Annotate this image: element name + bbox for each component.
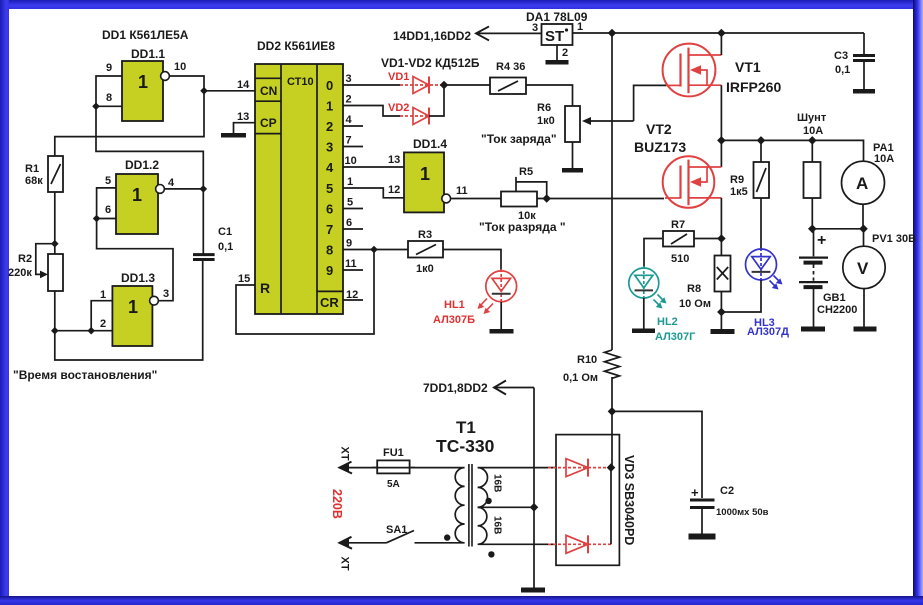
transistor VT1 (663, 44, 722, 97)
svg-text:1: 1 (138, 72, 148, 92)
wire pin6 stub (97, 218, 116, 220)
ground C2 (689, 534, 716, 540)
ground GB1 (801, 327, 825, 332)
svg-text:9: 9 (346, 238, 352, 250)
svg-text:3: 3 (326, 140, 333, 155)
wire DD1.3 pin1 tie (91, 301, 112, 331)
svg-text:А: А (856, 174, 868, 193)
rectifier VD3 box (556, 435, 619, 566)
node VD junction (440, 81, 449, 90)
svg-text:11: 11 (345, 258, 357, 270)
wire DD1.1 output to feedback (55, 76, 204, 156)
diode VD2 (400, 108, 429, 125)
svg-text:GB1: GB1 (823, 292, 846, 304)
connector arrow XT top (340, 467, 377, 469)
node rail-bus junction (608, 29, 617, 38)
svg-text:7: 7 (326, 222, 333, 237)
svg-text:8: 8 (106, 92, 112, 104)
svg-text:4: 4 (346, 114, 353, 126)
LED HL2 (629, 266, 667, 309)
svg-text:14DD1,16DD2: 14DD1,16DD2 (393, 29, 471, 43)
svg-text:СН2200: СН2200 (817, 304, 857, 316)
wire DD1.1 inputs 9,8 tied (96, 76, 203, 254)
svg-text:CP: CP (260, 116, 277, 130)
voltmeter PV1 (843, 246, 885, 288)
capacitor C2 (690, 500, 715, 534)
R6 wiper arrow from VT1 gate (588, 120, 634, 122)
svg-text:2: 2 (326, 119, 333, 134)
transformer secondary winding upper (478, 468, 488, 508)
svg-text:2: 2 (346, 94, 352, 106)
diode VD3 lower (548, 535, 611, 553)
wire VT2 source down (720, 198, 722, 256)
node R5 wiper junction (542, 194, 551, 203)
svg-text:7: 7 (346, 135, 352, 147)
svg-text:VT2: VT2 (646, 121, 672, 137)
svg-text:ХТ: ХТ (339, 557, 351, 571)
wire R9 to HL3 (760, 198, 762, 250)
svg-text:IRFP260: IRFP260 (726, 79, 781, 95)
svg-text:R8: R8 (687, 283, 701, 295)
svg-text:0,1: 0,1 (835, 64, 850, 76)
diode VD3 upper (548, 459, 611, 477)
node DD1.2 output junction (200, 185, 208, 193)
wire out6 stub (343, 208, 363, 210)
svg-text:C1: C1 (218, 226, 232, 238)
battery GB1 (799, 229, 828, 327)
wire R pin15 reset loop (236, 250, 374, 335)
svg-text:1к0: 1к0 (537, 115, 555, 127)
capacitor C3 (853, 56, 875, 90)
wire R7 left to HL2 (644, 239, 662, 269)
wire VT1 drain to rail (720, 33, 722, 55)
wire bus to bridge (611, 377, 613, 468)
wire VT1 source to VT2 drain (720, 85, 722, 167)
wire PV1 bottom (863, 289, 865, 327)
transformer T1 primary winding (455, 468, 464, 543)
wire HL3 bottom return (721, 280, 761, 312)
wire secondary center tap (478, 506, 534, 508)
frame left (0, 0, 9, 605)
svg-text:0: 0 (326, 78, 333, 93)
svg-text:1: 1 (326, 99, 333, 114)
R2 wiper arrowhead (40, 271, 48, 279)
svg-text:5: 5 (347, 197, 353, 209)
svg-text:CN: CN (260, 84, 277, 98)
transformer secondary winding lower (478, 507, 487, 544)
svg-text:16В: 16В (492, 474, 503, 492)
wire DD1.4 output to R5 (451, 198, 501, 200)
svg-text:DD1.4: DD1.4 (413, 137, 447, 151)
svg-text:BUZ173: BUZ173 (634, 139, 686, 155)
resistor R9 (754, 162, 770, 198)
svg-text:12: 12 (388, 184, 400, 196)
node bridge output junction (607, 463, 616, 472)
svg-text:C3: C3 (834, 50, 848, 62)
wire HL1 to ground (500, 302, 502, 329)
svg-text:1: 1 (100, 289, 106, 301)
svg-text:68к: 68к (25, 175, 43, 187)
svg-text:10: 10 (174, 61, 186, 73)
ground HL1 (490, 329, 514, 334)
lamp-resistor R8 X-box (715, 256, 731, 292)
svg-text:ХТ: ХТ (339, 447, 351, 461)
svg-text:6: 6 (105, 204, 111, 216)
frame bottom (0, 596, 923, 605)
LED HL1 (478, 269, 517, 314)
svg-text:CR: CR (320, 295, 339, 310)
svg-text:220В: 220В (330, 489, 344, 519)
svg-text:"Ток заряда": "Ток заряда" (481, 132, 557, 146)
wire out4 pin10 to DD1.4 (343, 166, 404, 168)
svg-text:ST: ST (545, 28, 564, 45)
svg-text:R9: R9 (730, 174, 744, 186)
wire FU1 to primary (410, 467, 459, 469)
wire DA1 pin2 to ground (556, 45, 558, 60)
wire shunt rail (721, 140, 863, 161)
svg-text:8: 8 (326, 243, 333, 258)
svg-text:V: V (857, 259, 869, 278)
winding polarity dot secondary lower (488, 551, 494, 557)
svg-text:R: R (260, 280, 270, 296)
wire R7 right (694, 238, 721, 240)
gate DD1.3 (112, 286, 158, 346)
svg-text:DD1.3: DD1.3 (121, 271, 155, 285)
resistor R3 (408, 241, 443, 258)
ground R8 (711, 329, 735, 334)
svg-text:Т1: Т1 (456, 418, 476, 437)
gate DD1.4 (404, 152, 451, 212)
ground HL2 (632, 329, 655, 334)
svg-text:1: 1 (577, 21, 583, 33)
svg-text:510: 510 (671, 253, 689, 265)
wire R9 top (760, 140, 762, 162)
wire R4 to R6 (526, 85, 573, 106)
wire VT1 gate (634, 85, 666, 121)
svg-text:R4 36: R4 36 (496, 61, 525, 73)
svg-text:0,1: 0,1 (218, 241, 233, 253)
svg-text:"Время востановления": "Время востановления" (13, 368, 157, 382)
frame right (913, 0, 923, 605)
svg-text:АЛ307Б: АЛ307Б (433, 314, 475, 326)
trimmer R6 (565, 106, 580, 142)
wire HL2 to ground (643, 298, 645, 329)
node R9 top junction (757, 136, 766, 145)
svg-text:C2: C2 (720, 485, 734, 497)
svg-text:+: + (817, 232, 826, 249)
ground R6 (562, 168, 583, 173)
wire CN to DD2 (204, 90, 255, 92)
regulator DA1 ST box (542, 24, 573, 45)
switch SA1 (386, 531, 459, 543)
svg-text:0,1 Ом: 0,1 Ом (563, 372, 598, 384)
wire VD2 cathode up to VD1 (429, 85, 444, 116)
wire DA1 pin3 with arrow (476, 32, 542, 34)
svg-text:6: 6 (346, 217, 352, 229)
frame top (0, 0, 923, 9)
node R7 junction (717, 234, 726, 243)
svg-text:14: 14 (237, 79, 250, 91)
node voltmeter junction (859, 225, 868, 234)
node R1/R2 wiper junction (51, 240, 59, 248)
svg-text:1к5: 1к5 (730, 186, 748, 198)
svg-text:АЛ307Г: АЛ307Г (655, 331, 696, 343)
resistor R10 zigzag (605, 350, 620, 378)
capacitor C1 (193, 255, 215, 260)
wire lower rail (812, 228, 863, 230)
svg-text:13: 13 (388, 154, 400, 166)
rheostat R5 (501, 177, 547, 207)
wire C3 drop (863, 33, 865, 54)
node battery junction (808, 225, 817, 234)
svg-text:2: 2 (100, 318, 106, 330)
transistor VT2 (663, 156, 722, 208)
svg-text:VD2: VD2 (388, 102, 409, 114)
svg-text:1к0: 1к0 (416, 263, 434, 275)
svg-text:R6: R6 (537, 102, 551, 114)
wire bridge output join (610, 468, 612, 545)
wire VD junction to R4 (444, 84, 490, 86)
wire center tap vertical (533, 388, 535, 588)
svg-text:HL2: HL2 (657, 316, 678, 328)
node VT junction (717, 136, 726, 145)
svg-text:10: 10 (345, 155, 357, 167)
winding polarity dot primary (444, 534, 450, 540)
svg-text:7DD1,8DD2: 7DD1,8DD2 (423, 381, 488, 395)
svg-text:R10: R10 (577, 354, 597, 366)
svg-text:+: + (691, 485, 699, 500)
node DD1.2 pin6 junction (93, 215, 101, 223)
ground PV1 (854, 327, 877, 332)
wire out5 pin1 to DD1.4 (343, 188, 404, 198)
svg-text:DD1.1: DD1.1 (131, 47, 165, 61)
wire main bus x=612 (611, 33, 613, 350)
svg-text:1: 1 (420, 164, 430, 184)
svg-text:11: 11 (456, 185, 468, 197)
wire PA1 bottom (862, 204, 864, 229)
wire DD1.2 inputs tied (97, 188, 173, 301)
svg-text:9: 9 (326, 263, 333, 278)
svg-text:3: 3 (163, 288, 169, 300)
wire R8 to ground (720, 292, 722, 330)
wire out7 stub (343, 228, 363, 230)
wire CP pin13 to ground (234, 123, 256, 133)
node HL3 return junction (717, 308, 726, 317)
node DD1.3 pin1/2 junction (87, 327, 95, 335)
svg-text:PV1 30В: PV1 30В (872, 233, 916, 245)
svg-text:1000мх 50в: 1000мх 50в (716, 507, 769, 518)
svg-text:DD1 К561ЛЕ5А: DD1 К561ЛЕ5А (102, 28, 189, 42)
svg-text:6: 6 (326, 202, 333, 217)
wire secondary top to bridge (483, 467, 556, 469)
svg-text:VD3 SB3040PD: VD3 SB3040PD (622, 455, 636, 545)
node R2-DD1.3 junction (51, 327, 59, 335)
wire secondary bottom to bridge (483, 543, 556, 545)
svg-text:15: 15 (238, 273, 250, 285)
svg-text:2: 2 (562, 47, 568, 59)
wire shunt top (811, 140, 813, 162)
svg-text:1: 1 (347, 176, 353, 188)
node C2 branch junction (608, 407, 617, 416)
svg-text:R7: R7 (671, 219, 685, 231)
wire shunt bottom (811, 198, 813, 229)
svg-text:АЛ307Д: АЛ307Д (747, 326, 789, 338)
wire CR pin12 stub (343, 299, 363, 301)
svg-text:VT1: VT1 (735, 59, 761, 75)
node reset junction (370, 246, 378, 254)
wire out1 pin2 (343, 106, 400, 117)
winding polarity dot secondary upper (485, 498, 491, 504)
LED HL3 (746, 248, 783, 290)
shunt resistor (804, 162, 821, 198)
svg-text:9: 9 (106, 62, 112, 74)
svg-text:Шунт: Шунт (797, 112, 827, 124)
svg-text:16В: 16В (492, 516, 503, 534)
svg-text:13: 13 (237, 111, 249, 123)
svg-text:ТС-330: ТС-330 (436, 436, 495, 456)
svg-text:5А: 5А (387, 479, 400, 490)
ground CP (221, 133, 246, 138)
wire 7DD1 arrow to center tap line (494, 387, 534, 389)
svg-text:DD2 К561ИЕ8: DD2 К561ИЕ8 (257, 39, 335, 53)
potentiometer R2 (48, 254, 63, 291)
svg-text:5: 5 (326, 181, 333, 196)
resistor R7 (663, 231, 694, 247)
fuse FU1 (372, 460, 415, 473)
svg-text:FU1: FU1 (383, 447, 404, 459)
ground C3 (853, 89, 875, 94)
svg-text:VD1: VD1 (388, 71, 409, 83)
svg-text:5: 5 (105, 175, 111, 187)
svg-text:220к: 220к (8, 267, 32, 279)
svg-text:1: 1 (132, 185, 142, 205)
svg-text:3: 3 (346, 73, 352, 85)
ammeter PA1 (842, 161, 885, 204)
svg-text:10А: 10А (803, 125, 823, 137)
wire R2 bottom to loop (55, 261, 203, 361)
wire out0 pin3 (343, 84, 400, 86)
node shunt top junction (808, 136, 817, 145)
wire R2 wiper loop (36, 244, 55, 275)
node pin8 junction (92, 103, 100, 111)
svg-text:3: 3 (532, 22, 538, 34)
node DD1.1 output/CN junction (200, 87, 208, 95)
svg-text:10А: 10А (874, 153, 894, 165)
node rail-VT1 junction (717, 29, 726, 38)
diode VD1 (400, 77, 444, 94)
gate DD1.2 (116, 174, 164, 234)
wire pin8 stub (96, 105, 122, 107)
svg-text:1: 1 (128, 297, 138, 317)
svg-text:DD1.2: DD1.2 (125, 158, 159, 172)
wire R1 to R2 (54, 192, 56, 254)
wire to C2 (612, 411, 702, 498)
wire out9 stub (343, 269, 363, 271)
svg-text:R2: R2 (18, 253, 32, 265)
wire PV1 top (863, 229, 865, 246)
wire to DD1.3 inputs (55, 330, 113, 332)
wire out3 stub (343, 146, 363, 148)
svg-text:VD1-VD2 КД512Б: VD1-VD2 КД512Б (381, 56, 480, 70)
svg-text:HL1: HL1 (444, 299, 465, 311)
svg-text:СТ10: СТ10 (287, 76, 314, 88)
svg-text:R5: R5 (519, 166, 533, 178)
counter DD2 (255, 64, 343, 314)
gate DD1.1 (122, 61, 169, 121)
node center tap junction (530, 503, 539, 512)
svg-text:10 Ом: 10 Ом (679, 298, 711, 310)
svg-text:R1: R1 (25, 163, 39, 175)
svg-text:R3: R3 (418, 229, 432, 241)
transformer core (468, 464, 470, 547)
resistor R1 (48, 156, 63, 192)
ground DA1 (546, 60, 569, 65)
wire DD1.2 output (164, 188, 203, 190)
wire top rail (573, 32, 865, 34)
ground center tap (521, 588, 545, 593)
wire out2 stub (343, 125, 363, 127)
resistor R4 (490, 78, 526, 95)
svg-text:"Ток разряда ": "Ток разряда " (479, 220, 566, 234)
wire R3 to HL1 (443, 250, 501, 271)
wire R5 to VT2 gate (537, 198, 664, 200)
connector arrow XT bottom (340, 542, 386, 544)
wire out8 pin9 to R3 (343, 249, 408, 251)
wire R6 to ground (572, 142, 574, 168)
svg-text:4: 4 (326, 160, 334, 175)
svg-text:4: 4 (168, 177, 175, 189)
